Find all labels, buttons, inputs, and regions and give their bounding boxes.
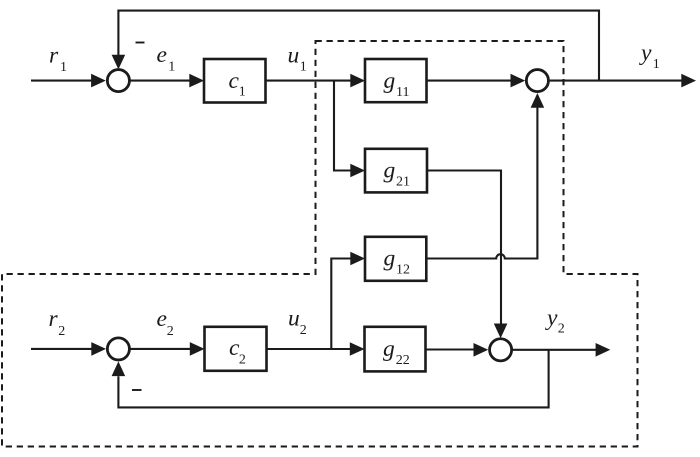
wire: y1 feedback to S1 (top loop) [112, 11, 599, 81]
svg-text:r: r [49, 43, 59, 69]
block g11 [365, 59, 427, 102]
wire: S4 to y2 output [513, 343, 610, 357]
svg-text:2: 2 [558, 322, 565, 337]
wire: c1 to g11 (signal u1) [266, 74, 366, 88]
block g21 [365, 149, 427, 193]
wire: y2 feedback to S3 (bottom loop) [112, 350, 549, 408]
svg-text:1: 1 [60, 60, 67, 75]
svg-text:g: g [383, 336, 395, 362]
wire: g12 up to S2 (with crossover hop) [426, 93, 544, 259]
minus sign at S1 [136, 42, 145, 44]
summing junction S2 [526, 70, 548, 92]
label e1 [157, 42, 176, 75]
svg-text:e: e [157, 306, 167, 332]
svg-text:11: 11 [396, 85, 409, 100]
svg-text:1: 1 [653, 57, 660, 72]
wire: u1 branch down to g21 [334, 81, 365, 178]
summing junction S4 [490, 339, 512, 361]
label u1 [288, 42, 307, 74]
svg-text:u: u [288, 306, 300, 332]
wire: g21 down to summing junction S4 [427, 171, 507, 339]
svg-text:2: 2 [300, 323, 307, 338]
svg-text:g: g [384, 68, 396, 94]
label g22 [383, 336, 410, 368]
svg-text:y: y [545, 305, 558, 331]
svg-text:1: 1 [168, 60, 175, 75]
wire: r1 input to summing junction S1 [31, 74, 106, 88]
minus sign at S3 [132, 389, 142, 391]
label r2 [49, 306, 66, 339]
svg-text:1: 1 [239, 85, 246, 100]
label r1 [49, 43, 67, 76]
svg-text:2: 2 [167, 324, 174, 339]
wire: r2 input to summing junction S3 [31, 342, 106, 356]
label e2 [157, 306, 174, 339]
label y2 [545, 305, 565, 337]
wire: c2 to g22 (signal u2) [267, 342, 365, 356]
svg-text:12: 12 [396, 262, 410, 277]
svg-text:1: 1 [300, 60, 307, 75]
svg-text:u: u [288, 42, 300, 68]
label g11 [384, 68, 410, 100]
wire: g22 to summing junction S4 [426, 343, 489, 357]
label c1 [229, 68, 246, 100]
svg-text:r: r [49, 306, 59, 332]
label y1 [639, 40, 660, 72]
label u2 [288, 306, 307, 339]
svg-text:22: 22 [396, 353, 410, 368]
svg-text:21: 21 [396, 174, 410, 189]
svg-text:g: g [384, 246, 396, 272]
block g22 [365, 327, 426, 372]
wire: S1 to c1 (signal e1) [130, 74, 205, 88]
wire: u2 branch up to g12 [331, 252, 365, 349]
svg-text:g: g [384, 158, 396, 184]
svg-text:2: 2 [239, 353, 246, 368]
svg-text:2: 2 [58, 324, 65, 339]
wire: S2 to y1 output [550, 74, 696, 88]
block c2 [205, 327, 267, 371]
label g12 [384, 246, 411, 278]
wire: g11 to summing junction S2 [427, 74, 526, 88]
svg-text:y: y [639, 40, 652, 66]
summing junction S3 [107, 338, 129, 360]
svg-text:e: e [157, 42, 167, 68]
label g21 [384, 158, 411, 190]
summing junction S1 [107, 70, 129, 92]
block g12 [365, 237, 426, 281]
block c1 [204, 59, 266, 103]
wire: S3 to c2 (signal e2) [130, 342, 205, 356]
label c2 [229, 335, 246, 368]
